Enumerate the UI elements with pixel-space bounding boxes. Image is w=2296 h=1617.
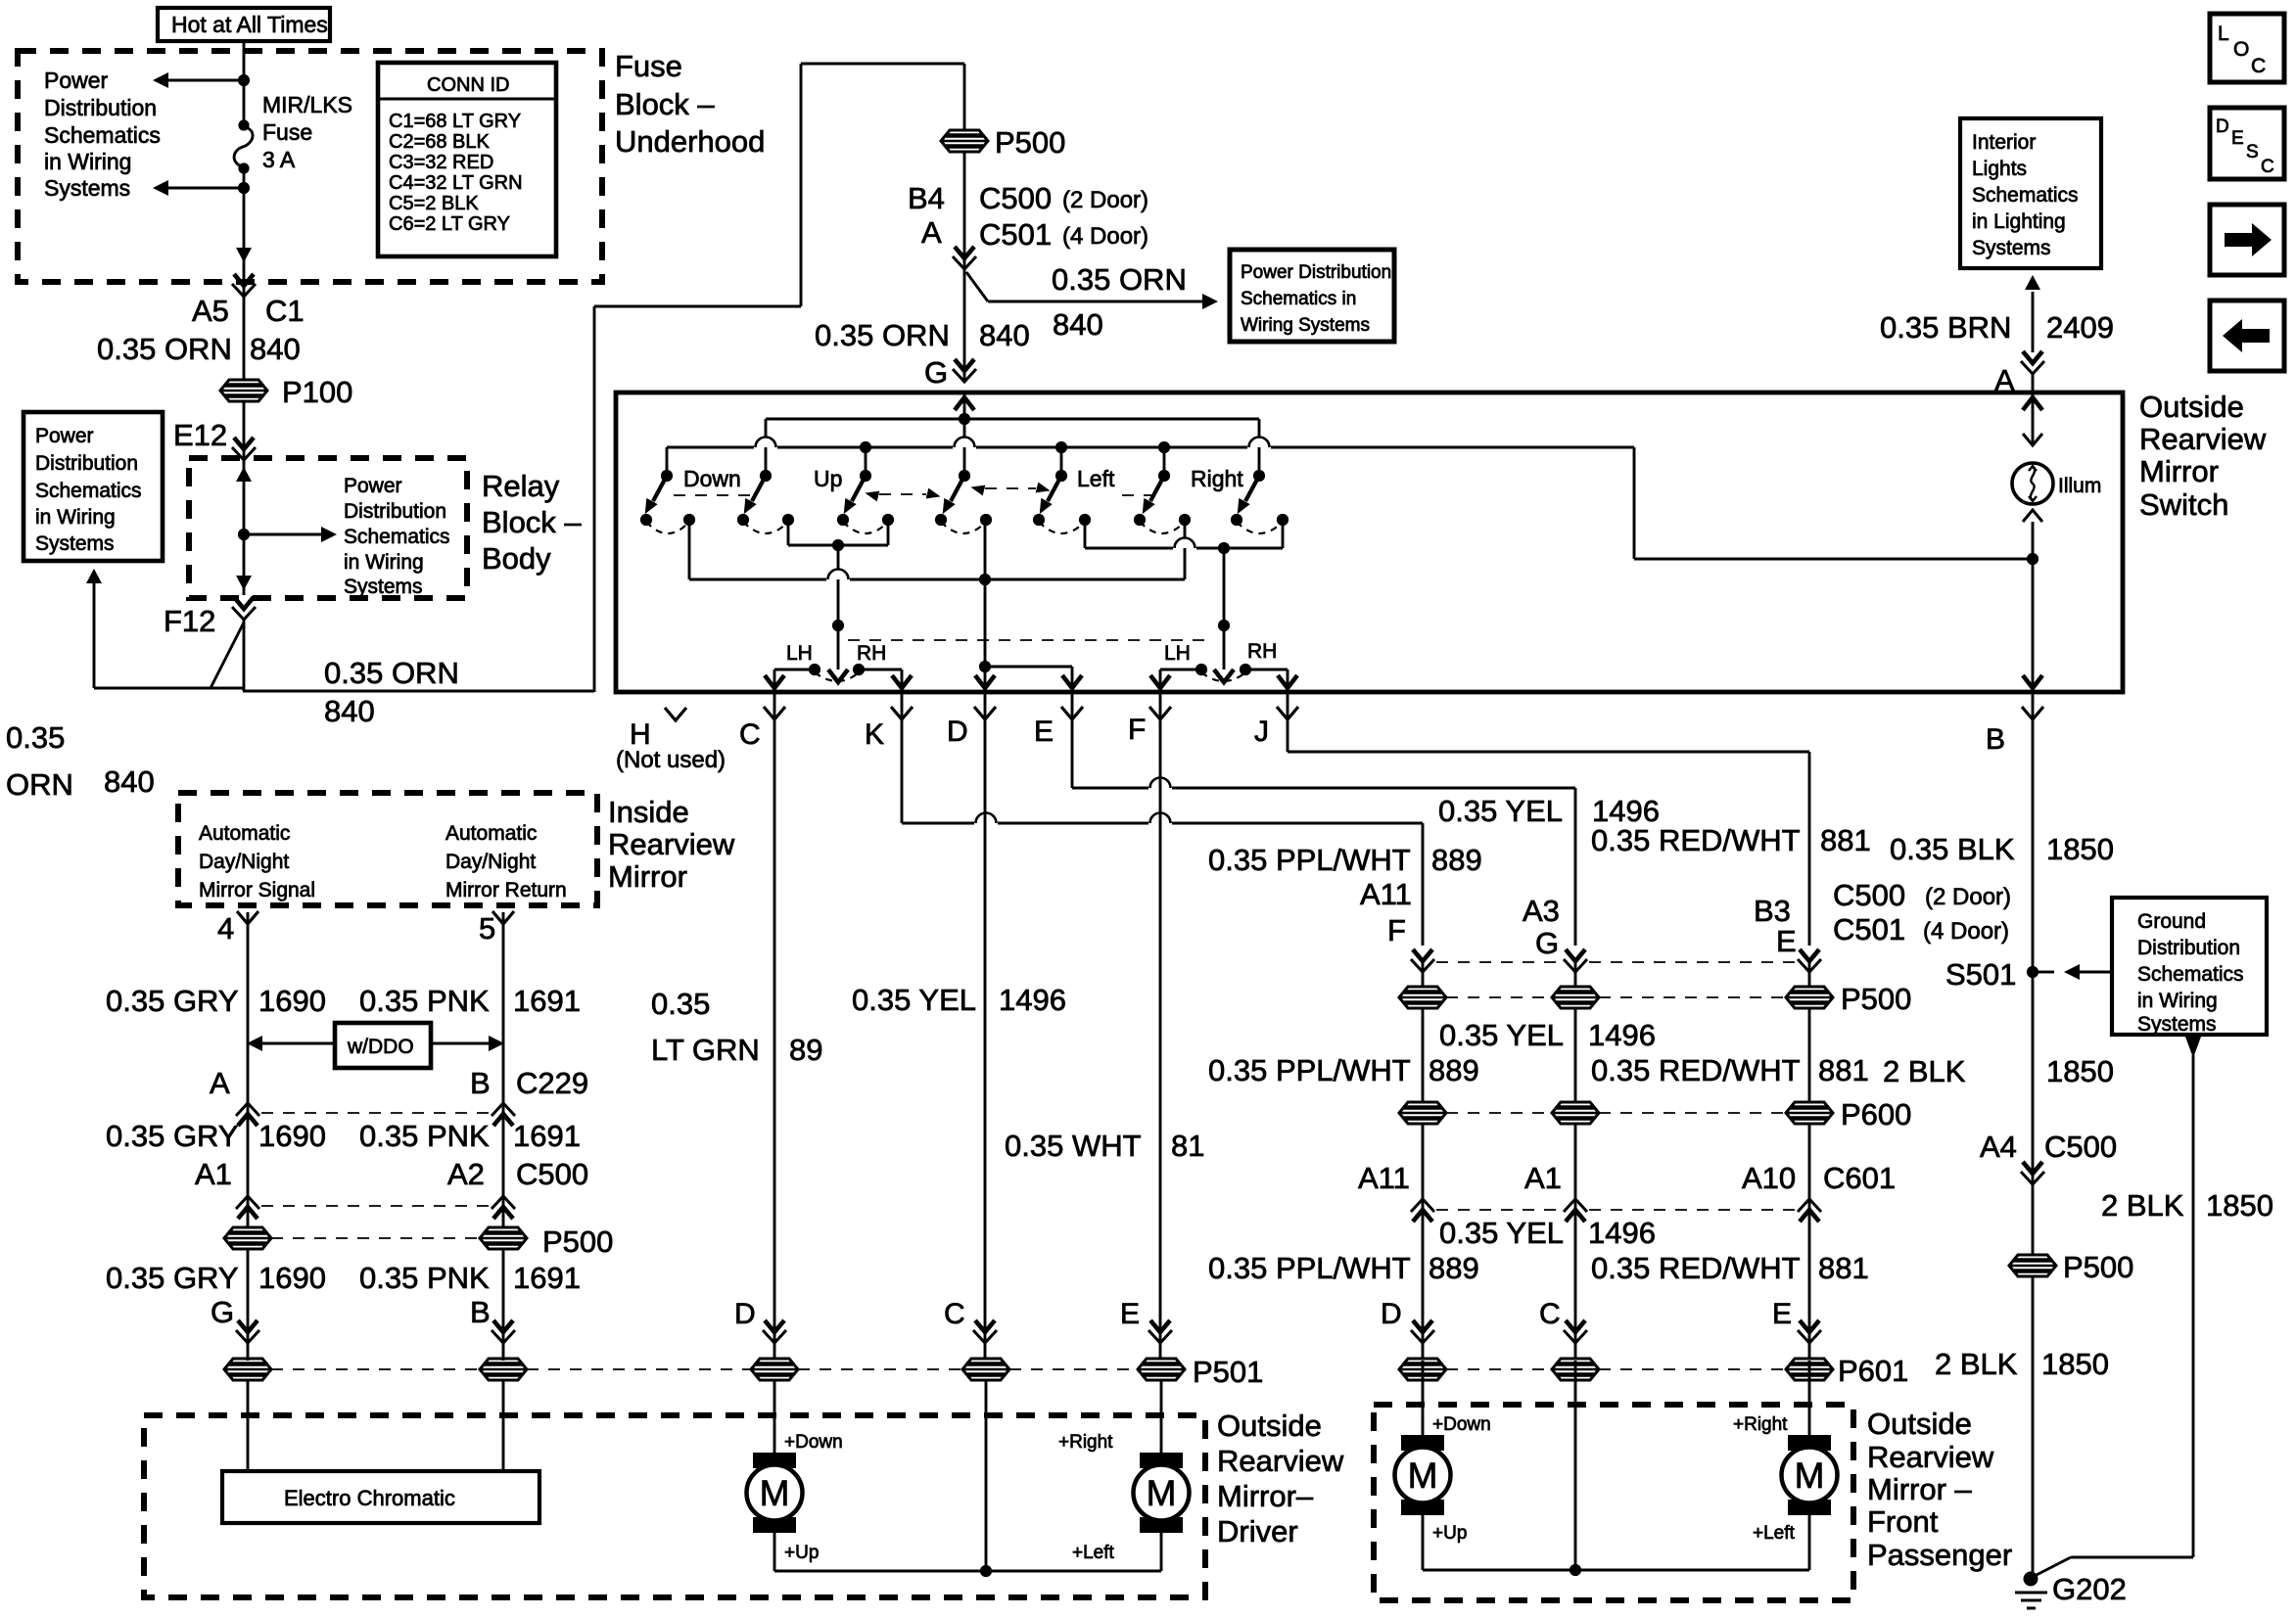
svg-text:A3: A3 xyxy=(1523,894,1560,928)
svg-text:Outside: Outside xyxy=(1217,1409,1322,1443)
svg-text:P600: P600 xyxy=(1841,1097,1911,1132)
svg-text:4: 4 xyxy=(217,911,234,946)
Fuse Block - Underhood title xyxy=(615,49,765,159)
Fuse Block - Underhood dashed box xyxy=(18,51,602,282)
svg-text:A11: A11 xyxy=(1360,877,1412,911)
right ground branch xyxy=(2033,1037,2273,1577)
svg-text:89: 89 xyxy=(789,1033,822,1067)
Power Distribution box (left solid) xyxy=(23,412,163,561)
svg-text:Mirror: Mirror xyxy=(2139,454,2219,488)
svg-text:0.35 RED/WHT: 0.35 RED/WHT xyxy=(1591,1053,1801,1087)
bus line 2 with hops xyxy=(667,438,1634,477)
svg-text:LT GRN: LT GRN xyxy=(651,1033,760,1067)
svg-text:D: D xyxy=(1381,1298,1402,1330)
svg-text:Systems: Systems xyxy=(344,576,423,598)
svg-text:Automatic: Automatic xyxy=(199,822,290,845)
bus line 1 xyxy=(766,413,1259,476)
svg-text:MIR/LKS: MIR/LKS xyxy=(262,92,352,117)
svg-text:5: 5 xyxy=(479,911,495,946)
svg-text:F12: F12 xyxy=(164,604,215,638)
svg-text:+Up: +Up xyxy=(1432,1523,1467,1544)
svg-text:1496: 1496 xyxy=(999,983,1066,1017)
svg-text:Distribution: Distribution xyxy=(344,500,446,523)
svg-text:Schematics: Schematics xyxy=(44,122,161,148)
wire up to interior lights xyxy=(1880,275,2114,397)
svg-text:0.35 GRY: 0.35 GRY xyxy=(106,1119,239,1153)
passenger pins D C E xyxy=(1381,1298,1821,1343)
svg-text:Power Distribution: Power Distribution xyxy=(1241,262,1391,283)
pin K xyxy=(865,692,1423,946)
svg-text:Distribution: Distribution xyxy=(2137,937,2240,959)
switch arm: left-right rocker xyxy=(1034,476,1061,517)
svg-text:Rearview: Rearview xyxy=(608,827,735,861)
wire fuse down to box edge with arrow xyxy=(236,168,252,262)
svg-text:Schematics in: Schematics in xyxy=(1241,289,1356,309)
svg-text:0.35 ORN: 0.35 ORN xyxy=(97,332,232,366)
svg-text:Outside: Outside xyxy=(1867,1407,1972,1441)
driver mirror title xyxy=(1217,1409,1344,1548)
svg-text:A1: A1 xyxy=(195,1157,232,1191)
svg-text:1690: 1690 xyxy=(258,1261,326,1295)
svg-text:0.35 WHT: 0.35 WHT xyxy=(1005,1129,1142,1163)
pin J xyxy=(1254,692,1809,946)
svg-text:889: 889 xyxy=(1431,843,1482,877)
svg-text:C: C xyxy=(2261,157,2274,177)
svg-text:Up: Up xyxy=(814,466,842,491)
wire label 0.35 ORN 840 at pin G xyxy=(815,318,1030,390)
svg-text:0.35 PNK: 0.35 PNK xyxy=(359,1119,490,1153)
svg-text:+Up: +Up xyxy=(784,1543,819,1563)
svg-text:0.35 RED/WHT: 0.35 RED/WHT xyxy=(1591,823,1801,857)
svg-text:0.35 YEL: 0.35 YEL xyxy=(1439,1216,1564,1250)
svg-text:A4: A4 xyxy=(1980,1130,2017,1164)
bottom contacts xyxy=(640,514,1289,526)
svg-text:L: L xyxy=(2218,23,2229,45)
svg-text:A11: A11 xyxy=(1358,1161,1410,1195)
svg-text:C500: C500 xyxy=(1833,878,1905,912)
Ground Distribution box xyxy=(2112,898,2267,1036)
svg-text:Schematics: Schematics xyxy=(2137,963,2244,986)
svg-text:881: 881 xyxy=(1818,1053,1869,1087)
svg-text:840: 840 xyxy=(1053,307,1103,342)
Relay Block - Body dashed box xyxy=(189,458,467,598)
splice P500 (top) xyxy=(941,125,1065,160)
driver up/down motor xyxy=(747,1380,843,1571)
svg-text:1690: 1690 xyxy=(258,984,326,1018)
svg-text:Schematics: Schematics xyxy=(344,526,450,548)
svg-text:840: 840 xyxy=(250,332,301,366)
passenger wires down xyxy=(1423,987,1809,1361)
driver mirror dashed box xyxy=(144,1415,1205,1597)
svg-text:0.35 PPL/WHT: 0.35 PPL/WHT xyxy=(1208,843,1411,877)
svg-text:Mirror Signal: Mirror Signal xyxy=(199,879,315,901)
svg-text:1496: 1496 xyxy=(1588,1216,1656,1250)
svg-text:C: C xyxy=(944,1298,965,1330)
svg-text:Inside: Inside xyxy=(608,795,689,829)
svg-text:P100: P100 xyxy=(282,375,352,409)
svg-text:C6=2 LT GRY: C6=2 LT GRY xyxy=(389,213,510,235)
driver common return xyxy=(774,1380,1161,1577)
svg-text:0.35 PPL/WHT: 0.35 PPL/WHT xyxy=(1208,1251,1411,1285)
svg-text:C: C xyxy=(2251,55,2266,77)
splice row P600 xyxy=(1399,1097,1911,1132)
pin E12 xyxy=(173,401,256,460)
svg-text:Block –: Block – xyxy=(615,87,715,121)
splice row P501 xyxy=(224,1355,1263,1389)
svg-text:(2 Door): (2 Door) xyxy=(1062,187,1148,213)
LH/RH selector driver xyxy=(765,642,912,689)
svg-text:Mirror Return: Mirror Return xyxy=(445,879,567,901)
LH/RH selector passenger xyxy=(1150,640,1297,689)
svg-text:0.35 BRN: 0.35 BRN xyxy=(1880,310,2011,345)
svg-text:G202: G202 xyxy=(2052,1572,2127,1606)
svg-text:B: B xyxy=(1986,723,2005,756)
svg-text:(4 Door): (4 Door) xyxy=(1062,223,1148,250)
contact pair dashed arcs xyxy=(646,522,1283,533)
Power Distribution Schematics in Wiring Systems box xyxy=(1230,250,1394,342)
svg-text:in Wiring: in Wiring xyxy=(35,506,116,529)
svg-text:2 BLK: 2 BLK xyxy=(1883,1054,1966,1088)
passenger common return xyxy=(1423,1361,1809,1576)
svg-text:0.35 RED/WHT: 0.35 RED/WHT xyxy=(1591,1251,1801,1285)
svg-text:881: 881 xyxy=(1818,1251,1869,1285)
common net to pins D/E xyxy=(689,520,1185,689)
svg-text:C5=2 BLK: C5=2 BLK xyxy=(389,193,479,214)
svg-text:1691: 1691 xyxy=(513,1119,581,1153)
Interior Lights Schematics box xyxy=(1960,118,2101,268)
electro chromatic element xyxy=(222,1380,539,1523)
svg-text:0.35 PNK: 0.35 PNK xyxy=(359,1261,490,1295)
svg-text:Power: Power xyxy=(35,425,94,447)
svg-text:E: E xyxy=(1120,1298,1140,1330)
svg-text:0.35 YEL: 0.35 YEL xyxy=(1439,1018,1564,1052)
svg-text:Lights: Lights xyxy=(1972,158,2027,180)
wire from Hot box down to fuse xyxy=(243,41,246,125)
svg-text:P601: P601 xyxy=(1838,1354,1908,1388)
switch arm: center common xyxy=(937,476,964,517)
svg-text:B: B xyxy=(470,1295,491,1329)
right arrow nav box xyxy=(2210,205,2284,275)
svg-text:CONN ID: CONN ID xyxy=(427,74,509,96)
svg-text:C501: C501 xyxy=(979,217,1052,252)
relay block note text xyxy=(344,475,450,598)
svg-text:C500: C500 xyxy=(2044,1130,2117,1164)
up/down output net xyxy=(788,520,888,682)
svg-text:C3=32 RED: C3=32 RED xyxy=(389,152,493,173)
svg-text:840: 840 xyxy=(324,694,375,728)
svg-text:A2: A2 xyxy=(447,1157,485,1191)
connector C500 inside mirror xyxy=(195,1157,588,1219)
svg-text:A: A xyxy=(210,1066,230,1100)
pin D xyxy=(947,692,997,1361)
svg-text:A5: A5 xyxy=(192,294,229,328)
svg-text:P500: P500 xyxy=(2063,1250,2133,1284)
left/right output net xyxy=(1085,520,1283,682)
svg-text:+Down: +Down xyxy=(784,1432,843,1453)
svg-text:Day/Night: Day/Night xyxy=(445,851,536,873)
svg-text:0.35 PNK: 0.35 PNK xyxy=(359,984,490,1018)
wire through relay block xyxy=(236,458,252,595)
Relay Block - Body title xyxy=(482,469,582,576)
svg-text:S501: S501 xyxy=(1945,957,2016,992)
svg-text:Systems: Systems xyxy=(2137,1013,2217,1036)
svg-text:Outside: Outside xyxy=(2139,390,2244,424)
wire F12 to switch feed xyxy=(94,620,594,691)
svg-text:Right: Right xyxy=(1191,466,1243,491)
svg-text:Ground: Ground xyxy=(2137,910,2206,933)
svg-text:1691: 1691 xyxy=(513,984,581,1018)
svg-text:A: A xyxy=(921,215,942,250)
svg-text:1850: 1850 xyxy=(2046,1054,2114,1088)
switch arm: up-down rocker xyxy=(838,476,866,517)
Hot at All Times label box xyxy=(158,8,330,41)
svg-text:C2=68 BLK: C2=68 BLK xyxy=(389,131,491,153)
Power Distribution note (top-left) xyxy=(44,68,161,201)
svg-text:Power: Power xyxy=(44,68,109,93)
svg-text:in Lighting: in Lighting xyxy=(1972,210,2066,233)
svg-text:Mirror–: Mirror– xyxy=(1217,1479,1314,1513)
CONN ID table xyxy=(378,63,556,256)
svg-text:in Wiring: in Wiring xyxy=(44,149,131,174)
svg-text:889: 889 xyxy=(1429,1251,1479,1285)
pin B xyxy=(1986,692,2043,972)
svg-text:Front: Front xyxy=(1867,1504,1939,1539)
svg-text:0.35 BLK: 0.35 BLK xyxy=(1890,832,2015,866)
svg-text:Electro Chromatic: Electro Chromatic xyxy=(284,1486,455,1510)
inside mirror title xyxy=(608,795,735,894)
mechanical link dashes xyxy=(674,482,1155,501)
svg-text:K: K xyxy=(865,718,884,751)
svg-text:E12: E12 xyxy=(173,418,227,452)
svg-text:Down: Down xyxy=(683,466,741,491)
mirror pins G and B xyxy=(211,1295,515,1343)
svg-text:1496: 1496 xyxy=(1588,1018,1656,1052)
switch arm top contacts xyxy=(661,470,1265,482)
svg-text:E: E xyxy=(1034,716,1054,748)
splice row P500 inside mirror xyxy=(224,1224,613,1259)
switch arm: up contact xyxy=(738,476,766,517)
LOC nav box xyxy=(2210,14,2284,82)
svg-text:Day/Night: Day/Night xyxy=(199,851,289,873)
passenger mirror title xyxy=(1867,1407,2012,1572)
splice S501 xyxy=(1945,957,2112,1579)
pin F12 xyxy=(164,597,256,638)
svg-text:0.35: 0.35 xyxy=(6,720,65,755)
svg-text:B: B xyxy=(470,1066,491,1100)
splice row P500 passenger xyxy=(1399,982,1911,1016)
passenger left/right motor xyxy=(1733,1361,1838,1570)
pin H (not used) xyxy=(616,708,726,773)
switch arm: down contact xyxy=(639,476,667,517)
svg-text:D: D xyxy=(2216,116,2229,137)
svg-text:RH: RH xyxy=(857,642,886,665)
svg-text:Mirror –: Mirror – xyxy=(1867,1472,1973,1506)
svg-text:+Down: +Down xyxy=(1432,1414,1491,1435)
svg-text:1850: 1850 xyxy=(2206,1188,2273,1223)
svg-text:+Right: +Right xyxy=(1058,1432,1113,1453)
svg-text:Rearview: Rearview xyxy=(1217,1444,1344,1478)
svg-text:in Wiring: in Wiring xyxy=(2137,990,2218,1012)
svg-text:Illum: Illum xyxy=(2058,475,2101,497)
svg-text:Schematics: Schematics xyxy=(35,480,142,502)
svg-text:A10: A10 xyxy=(1742,1161,1796,1195)
arrow up to Power Distribution box xyxy=(86,569,102,688)
pin E xyxy=(1034,692,1575,946)
pin C xyxy=(739,692,786,1361)
svg-text:in Wiring: in Wiring xyxy=(344,551,424,574)
mirror pins 4 and 5 xyxy=(217,911,514,1361)
branch arrow to power distribution note xyxy=(966,262,1218,342)
svg-text:E: E xyxy=(2231,128,2244,149)
connector C500/C501 passenger row xyxy=(1360,877,2011,987)
svg-text:Relay: Relay xyxy=(482,469,560,503)
svg-text:B3: B3 xyxy=(1754,894,1791,928)
splice row P601 xyxy=(1399,1354,1908,1388)
connector A5/C1 xyxy=(192,262,305,380)
svg-text:1691: 1691 xyxy=(513,1261,581,1295)
svg-text:(2 Door): (2 Door) xyxy=(1925,884,2011,910)
splice P500 ground xyxy=(2009,1250,2133,1284)
svg-text:0.35 ORN: 0.35 ORN xyxy=(324,656,459,690)
svg-text:C601: C601 xyxy=(1823,1161,1896,1195)
svg-text:G: G xyxy=(924,355,948,390)
svg-text:D: D xyxy=(734,1298,756,1330)
svg-text:C4=32 LT GRN: C4=32 LT GRN xyxy=(389,172,523,194)
junction arrow to relay note xyxy=(238,527,337,542)
svg-text:J: J xyxy=(1254,716,1269,748)
svg-text:81: 81 xyxy=(1171,1129,1204,1163)
svg-text:889: 889 xyxy=(1429,1053,1479,1087)
svg-text:Fuse: Fuse xyxy=(262,119,312,145)
svg-text:G: G xyxy=(211,1295,234,1329)
svg-text:P501: P501 xyxy=(1193,1355,1263,1389)
svg-text:0.35 PPL/WHT: 0.35 PPL/WHT xyxy=(1208,1053,1411,1087)
svg-text:Systems: Systems xyxy=(1972,237,2051,259)
svg-text:w/DDO: w/DDO xyxy=(347,1036,414,1058)
svg-text:C500: C500 xyxy=(979,181,1052,215)
DESC nav box xyxy=(2210,108,2284,179)
ground G202 xyxy=(2015,1572,2127,1609)
svg-text:0.35 ORN: 0.35 ORN xyxy=(815,318,950,352)
svg-text:2 BLK: 2 BLK xyxy=(2101,1188,2184,1223)
svg-text:F: F xyxy=(1387,913,1406,947)
switch arm: right contact xyxy=(1232,476,1259,517)
svg-text:Body: Body xyxy=(482,541,551,576)
svg-text:0.35 YEL: 0.35 YEL xyxy=(1438,794,1563,828)
svg-text:P500: P500 xyxy=(542,1224,613,1259)
svg-text:840: 840 xyxy=(104,764,155,799)
svg-text:Distribution: Distribution xyxy=(44,95,157,120)
svg-text:Hot at All Times: Hot at All Times xyxy=(171,12,328,37)
connector C229 xyxy=(210,1066,588,1126)
svg-text:2 BLK: 2 BLK xyxy=(1935,1347,2018,1381)
splice P100 xyxy=(220,375,352,409)
svg-text:0.35 GRY: 0.35 GRY xyxy=(106,984,239,1018)
svg-text:0.35 YEL: 0.35 YEL xyxy=(852,983,976,1017)
svg-text:O: O xyxy=(2233,38,2249,61)
svg-text:Underhood: Underhood xyxy=(615,124,765,159)
svg-text:1850: 1850 xyxy=(2046,832,2114,866)
svg-text:Switch: Switch xyxy=(2139,487,2228,522)
svg-text:Power: Power xyxy=(344,475,402,497)
driver pins D C E xyxy=(734,1298,1140,1330)
svg-text:Rearview: Rearview xyxy=(2139,422,2267,456)
svg-text:E: E xyxy=(1772,1298,1792,1330)
svg-text:Systems: Systems xyxy=(44,175,130,201)
svg-text:C: C xyxy=(739,718,761,751)
passenger mirror dashed box xyxy=(1374,1405,1853,1600)
svg-text:C: C xyxy=(1539,1298,1561,1330)
svg-text:P500: P500 xyxy=(995,125,1065,160)
svg-text:Left: Left xyxy=(1077,466,1115,491)
svg-text:840: 840 xyxy=(979,318,1030,352)
svg-text:C500: C500 xyxy=(516,1157,588,1191)
svg-text:RH: RH xyxy=(1247,640,1277,663)
svg-text:Systems: Systems xyxy=(35,532,115,555)
driver left/right motor xyxy=(1058,1380,1190,1571)
svg-text:Rearview: Rearview xyxy=(1867,1440,1994,1474)
svg-text:+Right: +Right xyxy=(1733,1414,1788,1435)
svg-text:0.35 ORN: 0.35 ORN xyxy=(1052,262,1187,297)
svg-text:+Left: +Left xyxy=(1072,1543,1115,1563)
svg-text:Driver: Driver xyxy=(1217,1514,1298,1548)
svg-text:S: S xyxy=(2246,142,2259,162)
fuse MIR/LKS 3A xyxy=(234,119,253,173)
svg-text:0.35: 0.35 xyxy=(651,987,710,1021)
svg-text:D: D xyxy=(947,716,968,748)
wire riser from relay feed up and over to fuse block output xyxy=(594,64,964,692)
svg-text:Mirror: Mirror xyxy=(608,859,687,894)
arrow left lower xyxy=(153,180,250,196)
switch arm: left contact xyxy=(1137,476,1164,517)
illumination branch wire xyxy=(1634,447,2038,565)
svg-text:1850: 1850 xyxy=(2041,1347,2109,1381)
svg-text:Distribution: Distribution xyxy=(35,452,138,475)
supply entry arrow xyxy=(955,393,974,476)
svg-text:Block –: Block – xyxy=(482,505,582,539)
svg-text:Interior: Interior xyxy=(1972,131,2036,154)
svg-text:881: 881 xyxy=(1820,823,1871,857)
connector C601 xyxy=(1358,1161,1896,1222)
svg-text:ORN: ORN xyxy=(6,767,73,802)
svg-text:Wiring Systems: Wiring Systems xyxy=(1241,315,1370,336)
arrow left upper xyxy=(153,72,250,88)
svg-text:LH: LH xyxy=(786,642,813,665)
svg-text:C229: C229 xyxy=(516,1066,588,1100)
Outside Rearview Mirror Switch box xyxy=(616,393,2123,692)
svg-text:C1: C1 xyxy=(265,294,305,328)
svg-text:3 A: 3 A xyxy=(262,147,296,172)
svg-text:(Not used): (Not used) xyxy=(616,747,726,773)
w/DDO option arrows xyxy=(247,1023,504,1068)
svg-text:+Left: +Left xyxy=(1753,1523,1796,1544)
svg-text:1690: 1690 xyxy=(258,1119,326,1153)
svg-text:C1=68 LT GRY: C1=68 LT GRY xyxy=(389,111,521,132)
connector B4/A C500 C501 xyxy=(908,181,1148,269)
svg-text:A1: A1 xyxy=(1524,1161,1562,1195)
svg-text:G: G xyxy=(1535,926,1559,960)
svg-text:P500: P500 xyxy=(1841,982,1911,1016)
svg-text:Automatic: Automatic xyxy=(445,822,537,845)
connector A4 C500 xyxy=(1980,1130,2117,1184)
svg-text:Schematics: Schematics xyxy=(1972,184,2079,207)
passenger up/down motor xyxy=(1395,1361,1491,1570)
svg-text:Fuse: Fuse xyxy=(615,49,682,83)
svg-text:LH: LH xyxy=(1164,642,1191,665)
left arrow nav box xyxy=(2210,300,2284,371)
svg-text:C501: C501 xyxy=(1833,912,1905,947)
Inside Rearview Mirror dashed box xyxy=(178,793,597,905)
